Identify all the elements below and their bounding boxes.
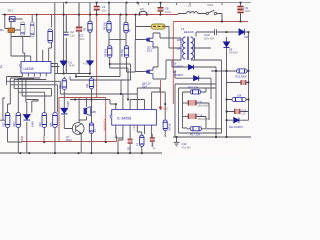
wire red box left vertical xyxy=(172,22,174,105)
svg-text:L1: L1 xyxy=(188,4,192,8)
svg-text:3M 8+8/-V: 3M 8+8/-V xyxy=(103,118,107,131)
diode D4 xyxy=(24,113,35,154)
resistor R16 xyxy=(188,86,206,95)
resistor R6 xyxy=(104,3,112,46)
wire bottom ground rail xyxy=(0,152,162,154)
resistor R4 xyxy=(48,29,53,43)
svg-text:12u: 12u xyxy=(70,34,75,38)
svg-text:R17 22K: R17 22K xyxy=(190,132,201,136)
op-amp U2 IC 84558 xyxy=(110,110,156,126)
fuse FU1 xyxy=(136,15,170,40)
svg-text:C13: C13 xyxy=(182,142,187,146)
svg-text:D10': D10' xyxy=(205,33,211,37)
speaker SPK xyxy=(79,98,96,123)
capacitor C15 xyxy=(227,100,249,121)
svg-text:4148: 4148 xyxy=(67,101,70,107)
svg-text:2W: 2W xyxy=(177,38,181,42)
svg-text:1K: 1K xyxy=(136,143,139,146)
capacitor C10 xyxy=(196,29,227,40)
svg-text:4148: 4148 xyxy=(69,64,75,68)
svg-text:220u: 220u xyxy=(245,9,251,13)
svg-text:10u: 10u xyxy=(80,37,85,41)
svg-text:W2: W2 xyxy=(140,7,145,11)
label red net 1 xyxy=(103,118,107,131)
resistor R9 xyxy=(121,3,129,73)
resistor R12 xyxy=(2,113,22,143)
wire left subcircuit xyxy=(5,15,32,39)
svg-text:4148: 4148 xyxy=(83,62,89,66)
label red net 2 xyxy=(132,125,136,130)
wire comparator input row xyxy=(55,74,90,77)
capacitor C12 xyxy=(183,114,210,121)
resistor R24 xyxy=(136,135,144,153)
wire top ticks xyxy=(139,3,223,6)
resistor R15 xyxy=(50,113,57,154)
svg-text:R9 510: R9 510 xyxy=(121,48,124,57)
wire gate drive fanout xyxy=(70,15,145,100)
diode D1 4148 xyxy=(60,3,75,74)
ground xyxy=(174,137,192,149)
svg-text:2W: 2W xyxy=(177,47,181,51)
svg-text:D11 1N4007: D11 1N4007 xyxy=(229,126,243,129)
diode D2 4148 xyxy=(83,36,93,74)
resistor R18 xyxy=(163,104,171,137)
resistor R17 xyxy=(187,127,203,137)
svg-text:R14: R14 xyxy=(39,122,42,127)
wire IC2 top pins xyxy=(64,88,165,110)
capacitor C2 xyxy=(64,15,75,74)
svg-text:+2V: +2V xyxy=(132,125,136,130)
svg-text:LB2: LB2 xyxy=(163,107,168,111)
svg-text:T1: T1 xyxy=(181,27,185,31)
wire output box mesh xyxy=(175,48,227,137)
label red net LB2 arrow xyxy=(159,107,163,111)
svg-text:150u/400V: 150u/400V xyxy=(198,104,210,107)
svg-text:C12: C12 xyxy=(198,114,203,118)
wire right section bottom rail xyxy=(173,136,251,138)
transistor Q4 mosfet xyxy=(145,67,153,77)
svg-text:C11: C11 xyxy=(198,100,203,104)
label Q8 xyxy=(142,82,151,89)
node R1 label xyxy=(0,28,4,32)
svg-text:EE4(22): EE4(22) xyxy=(184,30,194,34)
resistor R10 xyxy=(59,77,67,109)
svg-text:1N4007: 1N4007 xyxy=(174,65,184,69)
svg-text:R10: R10 xyxy=(59,84,62,89)
resistor R11 xyxy=(86,77,94,123)
resistor R13 xyxy=(13,113,20,154)
svg-text:LM339: LM339 xyxy=(24,67,34,71)
svg-text:47u/16V: 47u/16V xyxy=(182,146,192,149)
transistor Q7 9014 xyxy=(66,123,84,153)
svg-text:1K: 1K xyxy=(94,129,97,132)
label red net LB2 xyxy=(163,107,168,111)
wire red mid vertical xyxy=(160,80,162,107)
svg-text:D14: D14 xyxy=(142,85,147,89)
svg-text:D13: D13 xyxy=(147,49,152,53)
resistor R8 xyxy=(104,46,112,64)
resistor R2 xyxy=(30,22,34,37)
wire red bottom loop xyxy=(22,136,117,142)
svg-text:R15: R15 xyxy=(50,122,53,127)
capacitor C8 xyxy=(158,3,172,15)
capacitor C9 xyxy=(237,3,251,22)
svg-text:R1: R1 xyxy=(0,28,4,32)
svg-text:u15: u15 xyxy=(242,113,247,116)
node Z label xyxy=(0,64,3,69)
capacitor C18 xyxy=(150,134,156,150)
diode D8 xyxy=(227,29,249,39)
transistor Q1 xyxy=(10,17,16,22)
node SL1 xyxy=(8,9,14,13)
svg-text:R16 22K: R16 22K xyxy=(188,86,199,90)
svg-text:223u: 223u xyxy=(165,10,172,14)
wire LM339 top pins xyxy=(11,3,55,114)
wire right of comparator xyxy=(51,64,60,74)
svg-text:103: 103 xyxy=(127,148,132,151)
capacitor C17 xyxy=(127,139,133,153)
svg-text:150u/400V: 150u/400V xyxy=(198,118,210,121)
wire AC red line right xyxy=(173,21,248,23)
svg-text:R8 914: R8 914 xyxy=(104,48,107,57)
svg-text:9014: 9014 xyxy=(66,139,72,142)
svg-text:R12: R12 xyxy=(2,122,5,127)
resistor R19 xyxy=(211,32,249,79)
svg-text:4148: 4148 xyxy=(32,121,35,127)
wire top border net xyxy=(0,2,251,4)
svg-text:10u: 10u xyxy=(102,9,107,13)
label Q3 xyxy=(147,46,156,53)
resistor R20 xyxy=(227,83,249,102)
resistor R14 xyxy=(39,113,46,137)
resistor R22 xyxy=(89,123,97,153)
svg-text:1N4007: 1N4007 xyxy=(174,73,184,77)
capacitor C11 xyxy=(183,100,210,107)
capacitor C4 xyxy=(94,3,107,15)
svg-text:100V 684: 100V 684 xyxy=(204,37,215,40)
wire main positive red rail xyxy=(2,14,178,16)
svg-text:R21 300K: R21 300K xyxy=(236,76,247,79)
svg-text:R13: R13 xyxy=(13,122,16,127)
optocoupler U3 xyxy=(8,28,15,33)
svg-text:1N4007: 1N4007 xyxy=(229,51,239,55)
diode D9 xyxy=(224,37,239,68)
op-amp U1 LM339 xyxy=(20,62,51,74)
jumper W2 xyxy=(139,7,147,15)
capacitor C1 xyxy=(21,22,25,36)
svg-text:IC 84558: IC 84558 xyxy=(117,117,131,121)
diode D5 xyxy=(61,101,72,129)
resistor R5 xyxy=(83,3,92,37)
transistor Q3 mosfet xyxy=(145,35,153,45)
svg-text:SL1: SL1 xyxy=(8,9,14,13)
svg-text:D8: D8 xyxy=(245,35,249,39)
capacitor C3 xyxy=(76,3,85,74)
wire collector row xyxy=(70,100,110,105)
inductor L1 xyxy=(178,4,198,14)
diode D6 xyxy=(172,60,216,70)
wire LM339 bottom pin crossover fanout xyxy=(0,73,64,120)
wire red +V vertical xyxy=(59,15,106,142)
switch SW1 xyxy=(198,3,222,22)
wire drain and center-tap connections xyxy=(153,27,181,80)
svg-text:R6 1M: R6 1M xyxy=(104,23,107,30)
wire IC2 bottom pins xyxy=(116,125,152,153)
svg-text:R11: R11 xyxy=(86,83,89,88)
diode D7 xyxy=(173,70,211,81)
diode D11 xyxy=(227,118,249,129)
capacitor C14 xyxy=(227,71,249,85)
resistor R7 xyxy=(124,15,132,46)
svg-text:10K: 10K xyxy=(237,95,242,98)
svg-text:SW1: SW1 xyxy=(207,3,214,7)
transformer T1 xyxy=(177,27,195,60)
svg-text:INT 96: INT 96 xyxy=(168,123,171,131)
svg-text:SPK: SPK xyxy=(91,110,96,114)
